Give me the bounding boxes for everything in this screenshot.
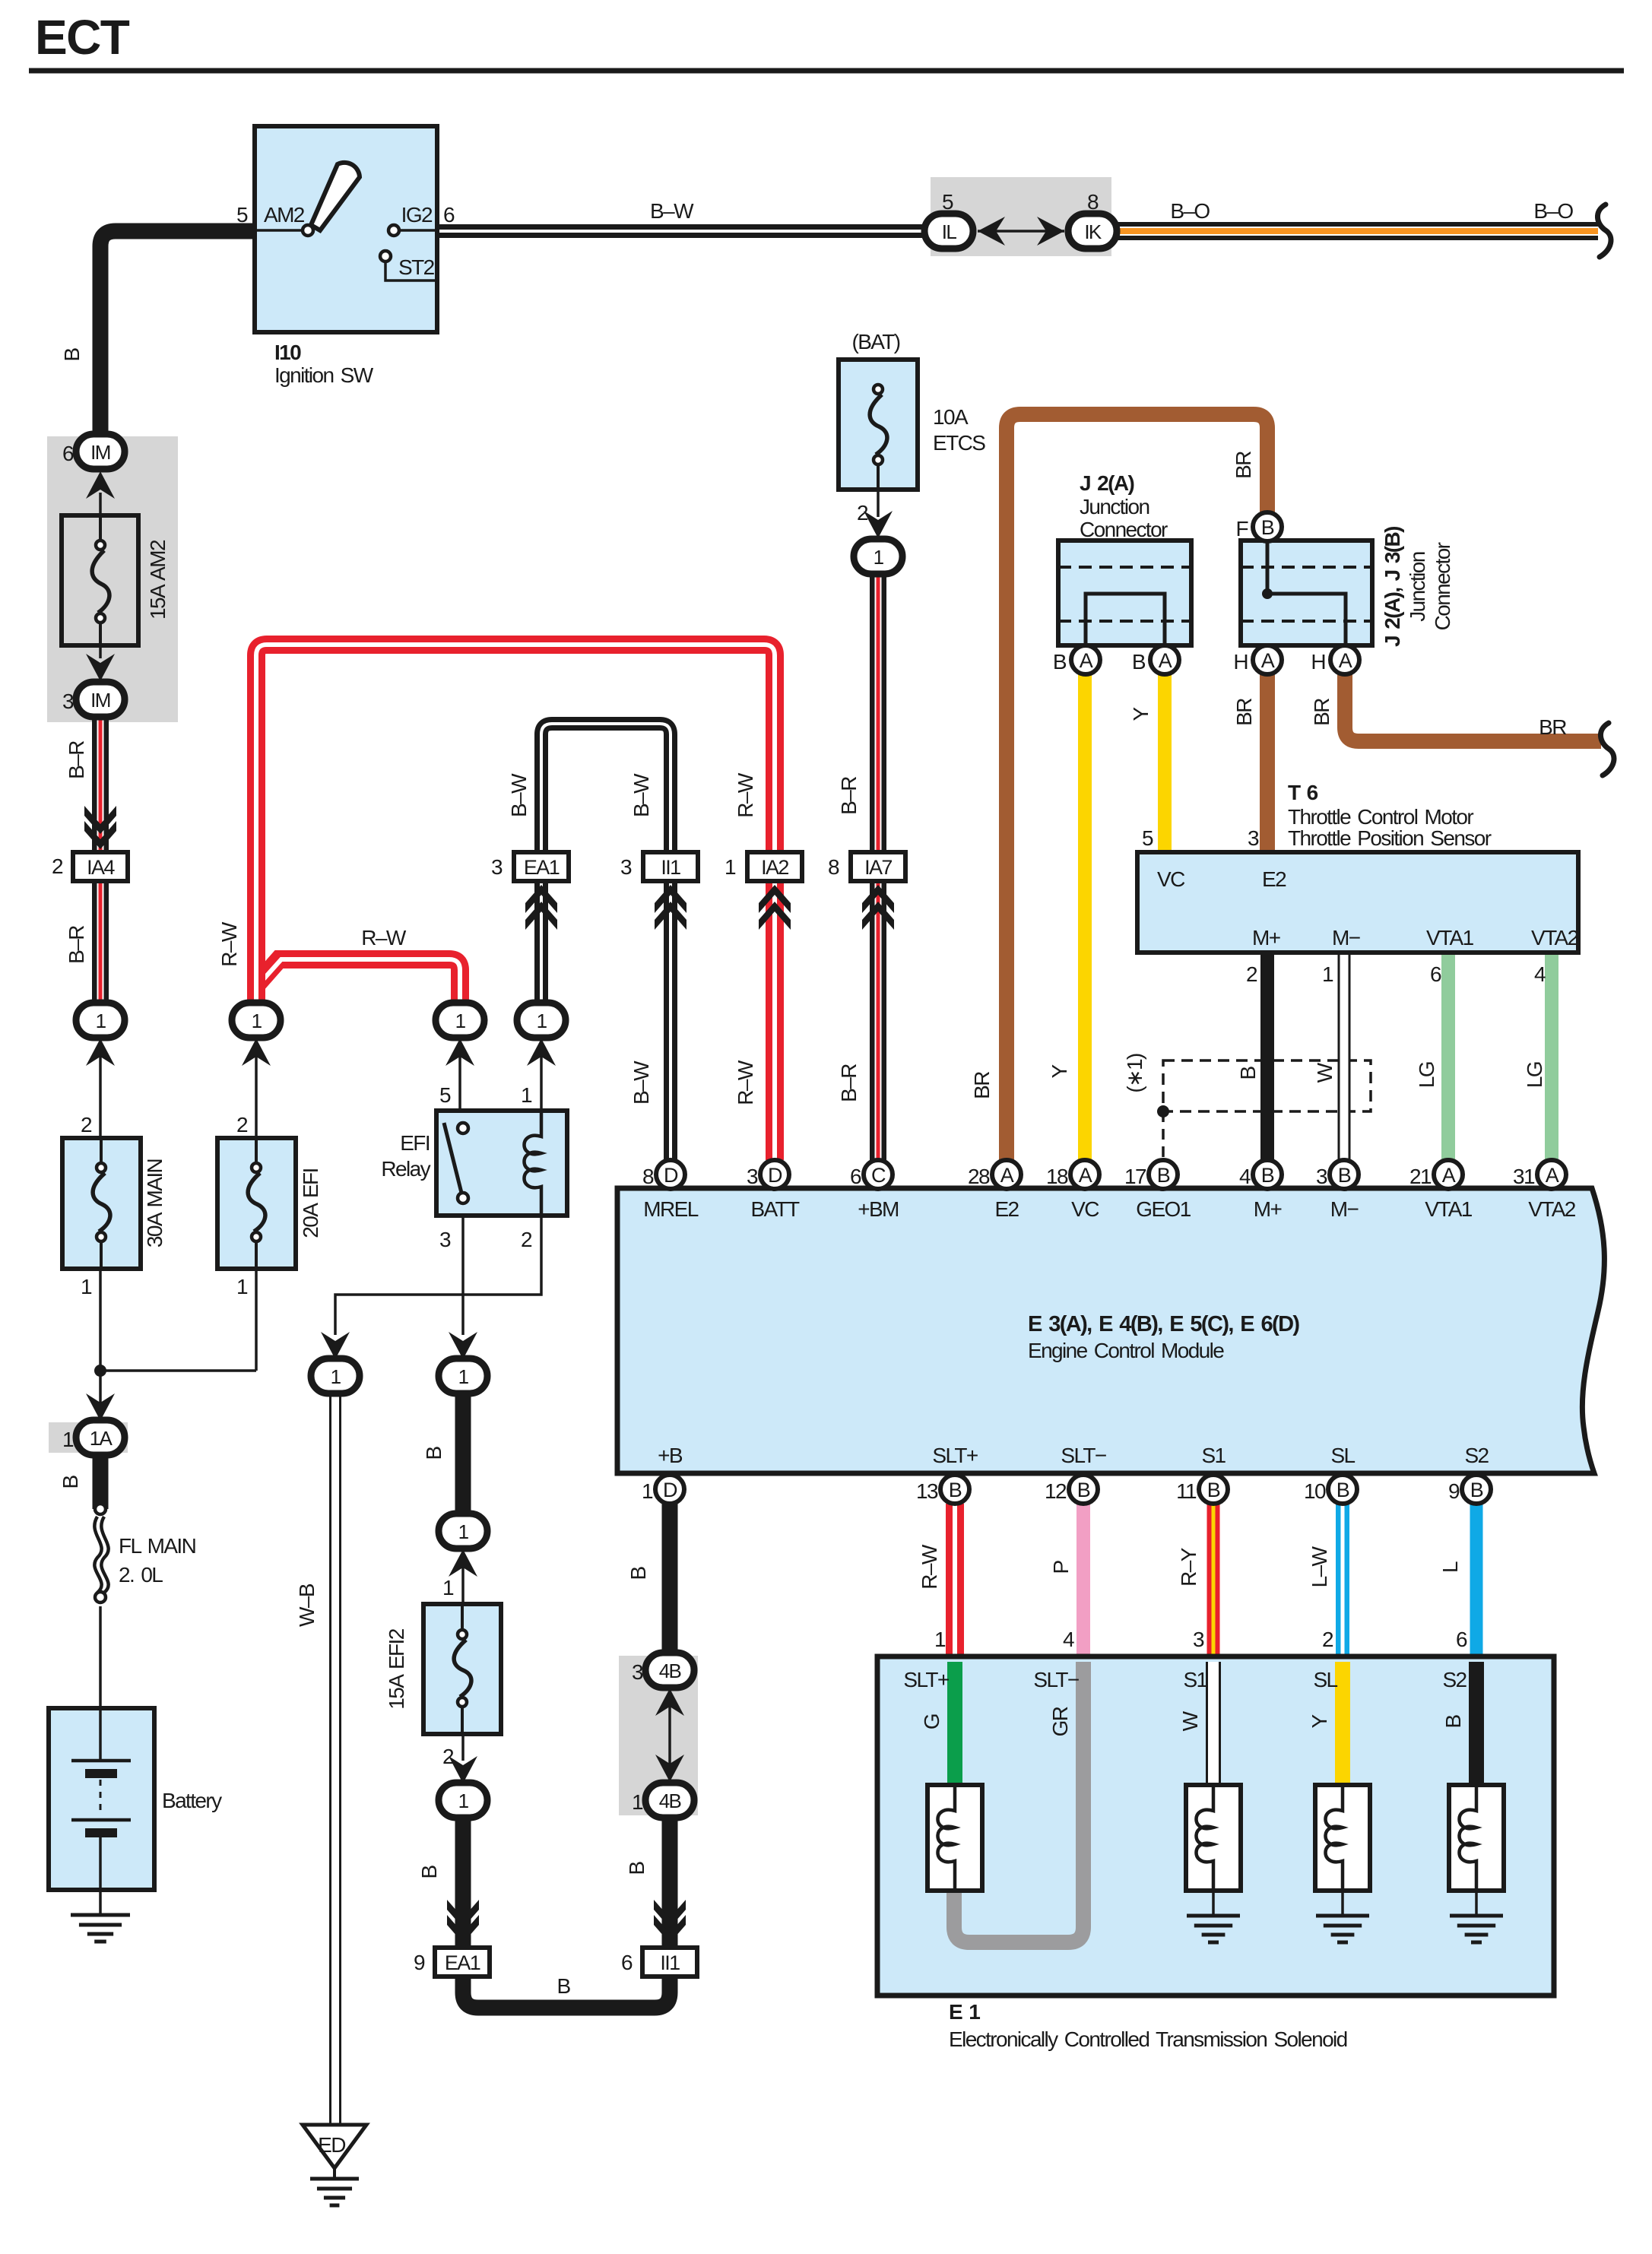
svg-text:SL: SL <box>1313 1668 1337 1691</box>
svg-text:IL: IL <box>942 220 957 243</box>
svg-text:28: 28 <box>968 1165 990 1188</box>
connector oval 1 (EFI2 lower) <box>439 1783 487 1818</box>
svg-text:1: 1 <box>874 546 884 569</box>
T6 throttle box <box>1137 852 1578 953</box>
connector oval 1 (relay B lower) <box>439 1514 487 1549</box>
wire S1 coil to ground <box>1212 1891 1215 1916</box>
svg-text:15A AM2: 15A AM2 <box>146 540 170 620</box>
wire thin 20A EFI top <box>255 1057 258 1138</box>
svg-text:H: H <box>1233 650 1248 674</box>
ECM pin 3B M- <box>1330 1160 1359 1189</box>
arrow into EFI2 connector 1 lower <box>449 1756 477 1783</box>
wire B-W ignition IG2 to IL <box>437 224 931 238</box>
wire R-W relay branch <box>256 959 460 1005</box>
ECM pin 10B SL <box>1328 1475 1357 1504</box>
arrow into connector 1 (20A EFI) <box>242 1038 271 1066</box>
connector oval 1 (30A MAIN) <box>76 1003 125 1038</box>
svg-text:12: 12 <box>1045 1479 1067 1503</box>
double chevron above IA4 <box>84 806 116 834</box>
svg-text:SLT−: SLT− <box>1061 1444 1105 1467</box>
wire P ECM SLT- to E1 <box>1076 1504 1090 1656</box>
svg-text:B–W: B–W <box>507 773 531 817</box>
svg-text:1: 1 <box>934 1628 946 1651</box>
svg-text:8: 8 <box>828 855 839 879</box>
arrow into connector 1 (30A MAIN) <box>86 1038 115 1066</box>
svg-text:BR: BR <box>1232 452 1255 479</box>
svg-text:Y: Y <box>1308 1714 1331 1729</box>
svg-text:IG2: IG2 <box>401 203 433 227</box>
svg-text:B: B <box>1470 1479 1483 1501</box>
wire W T6 M- to ECM <box>1338 953 1351 1160</box>
svg-text:LG: LG <box>1415 1062 1438 1088</box>
junction J2A bus <box>1086 594 1165 645</box>
wire W S1 inside E1 <box>1206 1662 1221 1785</box>
wire thin relay pin5 <box>458 1057 461 1111</box>
svg-text:VC: VC <box>1157 867 1185 891</box>
svg-text:B: B <box>949 1479 962 1501</box>
svg-text:10A: 10A <box>933 405 969 429</box>
ignition switch I10 box <box>255 126 437 332</box>
wire thin 30A MAIN top <box>99 1057 102 1138</box>
svg-text:BR: BR <box>1232 699 1256 726</box>
svg-text:IA4: IA4 <box>87 856 115 879</box>
svg-text:3: 3 <box>1316 1165 1327 1188</box>
svg-text:SLT+: SLT+ <box>903 1668 948 1691</box>
connector II1-3 box <box>643 852 698 881</box>
svg-text:B: B <box>1207 1479 1220 1501</box>
ECM pin 9B S2 <box>1462 1475 1491 1504</box>
svg-text:A: A <box>1339 649 1352 672</box>
wire B-R ETCS fuse to ECM +BM <box>870 573 886 1160</box>
connector IA4 box <box>73 852 128 881</box>
svg-text:VTA2: VTA2 <box>1531 926 1579 949</box>
svg-text:1: 1 <box>81 1275 92 1298</box>
svg-text:R–W: R–W <box>217 921 241 967</box>
svg-text:1: 1 <box>455 1010 466 1032</box>
svg-text:GR: GR <box>1048 1707 1072 1736</box>
svg-text:3: 3 <box>620 855 632 879</box>
ECM pin 1D +B <box>655 1475 684 1504</box>
svg-text:B: B <box>60 348 84 362</box>
EFI relay box <box>436 1111 567 1216</box>
fuse 10A ETCS box <box>839 360 918 490</box>
ECM box <box>617 1188 1604 1473</box>
svg-text:1: 1 <box>96 1010 106 1032</box>
svg-text:B–W: B–W <box>629 773 653 817</box>
pin circle J2A A right <box>1150 645 1179 674</box>
svg-text:E2: E2 <box>1262 867 1286 891</box>
connector oval IM 3 <box>76 682 125 717</box>
svg-text:B: B <box>1441 1715 1465 1729</box>
svg-text:ST2: ST2 <box>398 255 435 279</box>
svg-text:B–R: B–R <box>837 1064 861 1102</box>
svg-text:SL: SL <box>1330 1444 1355 1467</box>
connector IA7 box <box>851 852 905 881</box>
svg-text:AM2: AM2 <box>264 203 305 227</box>
wire B 15A EFI2 to EA1 <box>455 1818 471 1946</box>
svg-text:B: B <box>59 1476 82 1489</box>
svg-text:M+: M+ <box>1254 1197 1282 1221</box>
svg-text:6: 6 <box>443 203 455 227</box>
fuse 15A AM2 element <box>99 515 102 545</box>
ground below S1 <box>1187 1914 1240 1918</box>
solenoid coil SL <box>1326 1785 1343 1891</box>
svg-text:M+: M+ <box>1252 926 1280 949</box>
svg-text:Engine Control Module: Engine Control Module <box>1028 1339 1224 1362</box>
svg-text:3: 3 <box>1193 1628 1204 1651</box>
svg-text:S1: S1 <box>1183 1668 1207 1691</box>
svg-text:Throttle Position Sensor: Throttle Position Sensor <box>1288 826 1492 850</box>
fuse 20A EFI box <box>217 1138 296 1269</box>
ECM pin 17B GEO1 <box>1149 1160 1178 1189</box>
fuse 20A EFI element <box>255 1138 258 1168</box>
svg-text:J 2(A): J 2(A) <box>1080 471 1134 495</box>
wire B ECM +B to 4B <box>662 1504 678 1654</box>
svg-text:VTA2: VTA2 <box>1528 1197 1576 1221</box>
connector II1-6 box <box>642 1948 697 1977</box>
svg-text:3: 3 <box>491 855 503 879</box>
fuse 30A MAIN box <box>62 1138 141 1269</box>
fuse 30A MAIN element <box>100 1138 103 1168</box>
svg-text:SLT+: SLT+ <box>932 1444 977 1467</box>
gray highlight box IL-IK <box>931 177 1111 256</box>
svg-text:18: 18 <box>1046 1165 1068 1188</box>
svg-text:1: 1 <box>537 1010 547 1032</box>
svg-text:M−: M− <box>1332 926 1360 949</box>
svg-text:1: 1 <box>458 1790 469 1812</box>
ground below SL <box>1316 1914 1369 1918</box>
svg-text:B: B <box>556 1974 570 1998</box>
pin circle J3B H right <box>1330 645 1359 674</box>
svg-text:9: 9 <box>414 1951 425 1974</box>
ignition AM2 contact <box>303 225 313 236</box>
ground below S2 <box>1450 1914 1503 1918</box>
svg-text:1: 1 <box>236 1275 248 1298</box>
svg-text:6: 6 <box>1430 962 1441 986</box>
ECM pin 8D MREL <box>656 1160 685 1189</box>
svg-text:A: A <box>1442 1164 1456 1187</box>
svg-text:A: A <box>1261 649 1275 672</box>
svg-text:2: 2 <box>442 1745 454 1768</box>
svg-text:W: W <box>1313 1062 1337 1083</box>
svg-text:B: B <box>1338 1164 1351 1187</box>
connector oval 1 (relay 1) <box>517 1003 566 1038</box>
svg-text:3: 3 <box>62 690 74 713</box>
svg-text:1: 1 <box>442 1576 454 1599</box>
svg-text:BR: BR <box>970 1072 994 1099</box>
wire B T6 M+ to ECM <box>1260 953 1274 1160</box>
svg-text:20A EFI: 20A EFI <box>299 1168 322 1238</box>
svg-text:T 6: T 6 <box>1288 781 1318 804</box>
double chevron above EA1-9 <box>447 1900 479 1928</box>
ECM pin 3D BATT <box>760 1160 789 1189</box>
svg-text:W–B: W–B <box>295 1584 319 1627</box>
svg-text:BR: BR <box>1539 715 1566 739</box>
arrow into connector 1 (EFI relay 1) <box>527 1038 556 1066</box>
junction connector J2A box <box>1058 541 1191 645</box>
svg-text:Relay: Relay <box>381 1157 430 1181</box>
svg-text:B–O: B–O <box>1533 199 1573 223</box>
svg-text:15A EFI2: 15A EFI2 <box>385 1628 408 1709</box>
svg-text:E 1: E 1 <box>949 2000 980 2024</box>
svg-text:1: 1 <box>252 1010 262 1032</box>
svg-text:1: 1 <box>642 1479 653 1503</box>
arrow into 4B lower <box>655 1755 684 1782</box>
svg-text:C: C <box>871 1164 886 1187</box>
svg-text:1: 1 <box>458 1520 469 1543</box>
junction connector J3B box <box>1241 541 1372 645</box>
svg-text:2: 2 <box>521 1228 532 1251</box>
arrow into ETCS connector 1 <box>864 511 893 538</box>
svg-text:2. 0L: 2. 0L <box>119 1563 163 1587</box>
wire thin 30A MAIN bottom to node <box>99 1269 102 1408</box>
connector oval 1 (relay B upper) <box>439 1358 487 1393</box>
wire Y J2 right to T6 VC <box>1158 672 1172 852</box>
connector oval IM 6 <box>76 434 125 469</box>
svg-text:BATT: BATT <box>750 1197 800 1221</box>
svg-text:S1: S1 <box>1201 1444 1226 1467</box>
svg-text:R–W: R–W <box>734 1060 757 1105</box>
svg-text:3: 3 <box>632 1660 643 1684</box>
svg-text:6: 6 <box>62 442 74 465</box>
svg-text:17: 17 <box>1124 1165 1146 1188</box>
svg-text:11: 11 <box>1176 1479 1197 1503</box>
arrow into connector 1A <box>86 1393 115 1421</box>
svg-text:Junction: Junction <box>1406 552 1429 622</box>
svg-text:A: A <box>1159 649 1172 672</box>
svg-text:8: 8 <box>642 1165 654 1188</box>
wire L ECM S2 to E1 <box>1470 1504 1483 1656</box>
battery box <box>49 1708 154 1890</box>
svg-text:J 2(A), J 3(B): J 2(A), J 3(B) <box>1381 527 1404 647</box>
svg-text:R–W: R–W <box>918 1544 941 1590</box>
ECM pin 18A VC <box>1070 1160 1099 1189</box>
svg-text:IA2: IA2 <box>761 856 788 879</box>
svg-text:SLT−: SLT− <box>1033 1668 1078 1691</box>
svg-text:10: 10 <box>1304 1479 1326 1503</box>
wire R-Y ECM S1 to E1 <box>1207 1504 1220 1656</box>
ECM pin 13B SLT+ <box>940 1475 969 1504</box>
svg-text:B: B <box>626 1567 650 1580</box>
svg-text:6: 6 <box>621 1951 633 1974</box>
svg-text:B–O: B–O <box>1170 199 1210 223</box>
svg-text:I10: I10 <box>274 341 301 364</box>
wire W-B to ED ground <box>329 1393 341 2125</box>
svg-text:Junction: Junction <box>1080 495 1149 518</box>
svg-text:9: 9 <box>1448 1479 1460 1503</box>
svg-text:B: B <box>1261 1164 1274 1187</box>
svg-text:II1: II1 <box>660 1951 680 1974</box>
svg-text:ETCS: ETCS <box>933 431 985 455</box>
svg-text:6: 6 <box>1456 1628 1467 1651</box>
arrow into connector 1 (EFI relay 5) <box>446 1038 474 1066</box>
svg-text:BR: BR <box>1310 699 1333 726</box>
junction J3B dashes <box>1241 566 1372 569</box>
node dot GEO1 shield <box>1157 1105 1169 1117</box>
svg-text:B: B <box>1053 650 1067 674</box>
svg-text:L: L <box>1438 1561 1462 1573</box>
connector IA2 box <box>747 852 802 881</box>
connector oval 1 (ETCS) <box>854 539 902 574</box>
svg-text:2: 2 <box>52 854 63 878</box>
svg-text:EA1: EA1 <box>445 1951 480 1974</box>
svg-text:F: F <box>1235 517 1248 541</box>
svg-text:S2: S2 <box>1442 1668 1467 1691</box>
svg-text:GEO1: GEO1 <box>1136 1197 1191 1221</box>
svg-text:IK: IK <box>1084 220 1102 243</box>
svg-text:30A MAIN: 30A MAIN <box>143 1159 166 1247</box>
wire LG T6 VTA2 to ECM <box>1545 953 1558 1160</box>
svg-text:1: 1 <box>725 855 736 879</box>
svg-text:1: 1 <box>62 1428 74 1451</box>
connector oval IL <box>924 214 973 249</box>
svg-text:5: 5 <box>942 190 953 214</box>
svg-text:2: 2 <box>81 1113 92 1137</box>
wire B-W relay pin1 bridge to EA1 <box>541 724 671 1005</box>
svg-text:31: 31 <box>1513 1165 1535 1188</box>
svg-text:4: 4 <box>1239 1165 1251 1188</box>
ignition IG2 contact <box>388 225 399 236</box>
wire BR J3 right H to break <box>1345 672 1601 741</box>
arrow into IL <box>978 217 1005 246</box>
svg-text:R–Y: R–Y <box>1177 1547 1200 1587</box>
svg-text:B–W: B–W <box>650 199 694 223</box>
svg-text:M−: M− <box>1330 1197 1359 1221</box>
connector oval 4B upper <box>645 1653 694 1688</box>
svg-text:ED: ED <box>318 2133 345 2157</box>
svg-text:+B: +B <box>658 1444 683 1467</box>
gray highlight box 4B column <box>619 1656 698 1815</box>
FL MAIN fusible link <box>95 1504 106 1514</box>
svg-text:Throttle Control Motor: Throttle Control Motor <box>1288 805 1473 829</box>
solenoid coil S2 <box>1460 1785 1477 1891</box>
wire thin between 4B ovals <box>668 1687 671 1783</box>
svg-text:4: 4 <box>1063 1628 1074 1651</box>
svg-text:B–R: B–R <box>837 777 861 815</box>
wire thin ETCS fuse bottom <box>877 490 880 517</box>
connector oval 1 (W-B) <box>311 1358 360 1393</box>
svg-text:VTA1: VTA1 <box>1426 926 1474 949</box>
svg-text:1: 1 <box>458 1365 469 1388</box>
ignition ST2 contact <box>380 251 391 262</box>
solenoid coil S1 <box>1197 1785 1214 1891</box>
solenoid coil box SLT <box>927 1785 982 1891</box>
svg-text:EA1: EA1 <box>524 856 560 879</box>
arrow into IM 6 <box>86 471 115 499</box>
svg-text:(BAT): (BAT) <box>851 330 899 353</box>
wire B-R IA4 to connector 1 <box>92 880 109 1005</box>
svg-text:5: 5 <box>439 1083 451 1107</box>
svg-text:1A: 1A <box>90 1427 113 1450</box>
arrow into W-B connector 1 <box>321 1332 350 1359</box>
double chevron above IA2 <box>759 885 791 913</box>
ECM pin 21A VTA1 <box>1434 1160 1463 1189</box>
svg-text:B–R: B–R <box>65 741 88 779</box>
fuse 15A AM2 box <box>62 515 138 645</box>
svg-text:Connector: Connector <box>1080 518 1168 541</box>
svg-text:B: B <box>1077 1479 1090 1501</box>
wire B relay to connector <box>455 1393 471 1515</box>
fuse 15A EFI2 box <box>423 1604 501 1734</box>
wire thin fuse AM2 links <box>99 493 102 515</box>
double chevron above II1-3 <box>655 885 686 913</box>
connector oval 1A <box>76 1420 125 1455</box>
svg-text:R–W: R–W <box>361 926 407 949</box>
ground below battery <box>71 1913 130 1917</box>
svg-text:B: B <box>1261 516 1274 539</box>
title rule <box>29 68 1624 74</box>
svg-text:EFI: EFI <box>400 1131 430 1155</box>
break symbol BR wire <box>1600 723 1614 775</box>
svg-text:IM: IM <box>90 441 110 464</box>
svg-text:VC: VC <box>1071 1197 1099 1221</box>
svg-text:Battery: Battery <box>162 1789 222 1812</box>
wire L-W ECM SL to E1 <box>1336 1504 1349 1656</box>
solenoid coil box S2 <box>1449 1785 1504 1891</box>
svg-text:S2: S2 <box>1464 1444 1489 1467</box>
wire dashed GEO1 <box>1162 1111 1165 1160</box>
svg-text:II1: II1 <box>661 856 680 879</box>
wire Y J2 left to ECM VC <box>1078 672 1092 1160</box>
svg-text:B: B <box>1337 1479 1349 1501</box>
connector oval 1 (relay 5) <box>436 1003 484 1038</box>
svg-text:B: B <box>1236 1067 1260 1080</box>
junction J2A dashes <box>1058 566 1191 569</box>
svg-text:B: B <box>625 1862 648 1875</box>
ECM pin 12B SLT- <box>1069 1475 1098 1504</box>
svg-text:A: A <box>1079 1164 1092 1187</box>
svg-text:2: 2 <box>857 501 868 525</box>
svg-text:Ignition SW: Ignition SW <box>274 363 374 387</box>
break symbol B-O wire <box>1597 204 1611 257</box>
svg-text:B: B <box>1157 1164 1170 1187</box>
wire BR ECM E2 up to J3 F <box>1007 414 1267 1160</box>
wire B-R IM to IA4 <box>92 716 109 851</box>
svg-text:ECT: ECT <box>35 10 130 65</box>
pin circle J3B H left <box>1253 645 1282 674</box>
gray highlight box IM column <box>47 436 178 722</box>
ECM pin 11B S1 <box>1199 1475 1228 1504</box>
double chevron above II1-6 <box>654 1900 686 1928</box>
wire thin relay pin3 down <box>461 1216 465 1335</box>
svg-text:2: 2 <box>236 1113 248 1137</box>
svg-text:1: 1 <box>331 1365 341 1388</box>
svg-text:A: A <box>1080 649 1093 672</box>
ED ground triangle <box>303 2125 366 2168</box>
svg-text:3: 3 <box>1248 826 1259 850</box>
svg-text:B–R: B–R <box>65 926 88 964</box>
wire thin 15A EFI2 top <box>461 1568 465 1604</box>
svg-text:LG: LG <box>1523 1062 1546 1088</box>
solenoid coil box S1 <box>1186 1785 1241 1891</box>
wire thin IL-IK <box>978 230 1064 233</box>
wire B EA1 to II1 bottom <box>463 1977 670 2008</box>
wire B-O from IK to break <box>1113 222 1598 240</box>
svg-text:D: D <box>768 1164 782 1187</box>
double chevron above IA7 <box>862 885 894 913</box>
EFI relay coil <box>525 1111 542 1216</box>
fuse 15A EFI2 element <box>461 1604 464 1634</box>
wire thin relay pin1 <box>540 1057 543 1111</box>
svg-text:L–W: L–W <box>1308 1545 1331 1587</box>
wire BR J3 left H to T6 E2 <box>1260 672 1275 852</box>
solenoid coil SLT <box>938 1785 956 1891</box>
arrow into IK <box>1037 217 1064 246</box>
wire B-W II1 to ECM MREL <box>664 880 677 1160</box>
svg-text:P: P <box>1049 1561 1073 1574</box>
arrow into 4B upper <box>655 1688 684 1716</box>
solenoid coil box SL <box>1315 1785 1370 1891</box>
